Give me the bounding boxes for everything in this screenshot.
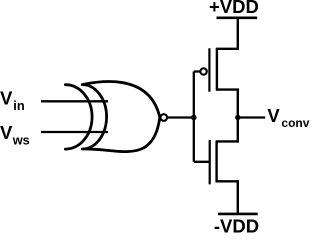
transistor M2 channel bar [215,141,217,182]
label Vin [0,87,25,113]
svg-text:V: V [0,122,13,143]
transistor M1 source arm [216,18,238,49]
wire output node [238,116,265,118]
XNOR gate U1 output bubble [161,114,168,121]
svg-text:V: V [267,105,280,126]
label Vconv [267,105,309,130]
svg-text:ws: ws [12,132,30,147]
transistor M2 (NMOS) gate bar [209,140,211,185]
svg-text:+VDD: +VDD [209,0,259,17]
transistor M2 source arm [216,181,238,214]
wire stub to PMOS gate bubble [194,70,200,72]
-VDD power bar [218,213,258,216]
svg-text:in: in [13,98,25,113]
XNOR gate U1 input arc [65,85,92,149]
svg-text:conv: conv [281,116,309,130]
transistor M1 gate bar [208,48,210,91]
transistor M1 channel bar [216,48,218,90]
svg-text:-VDD: -VDD [214,215,259,233]
transistor M1 (PMOS) gate bubble [200,68,206,74]
+VDD power bar [217,16,258,19]
junction dot on gate rail [191,115,197,121]
svg-text:V: V [0,87,13,108]
wire bubble to gate rail [167,116,193,118]
transistor M2 drain arm [216,118,238,142]
XNOR gate U1 body [82,81,160,151]
label Vws [0,122,30,147]
transistor M1 drain arm [216,90,238,118]
wire gate rail vertical [193,72,195,162]
wire Vws input [41,131,108,133]
wire stub to NMOS gate [194,161,210,163]
wire Vin input [41,100,108,102]
junction dot output node [235,115,240,120]
